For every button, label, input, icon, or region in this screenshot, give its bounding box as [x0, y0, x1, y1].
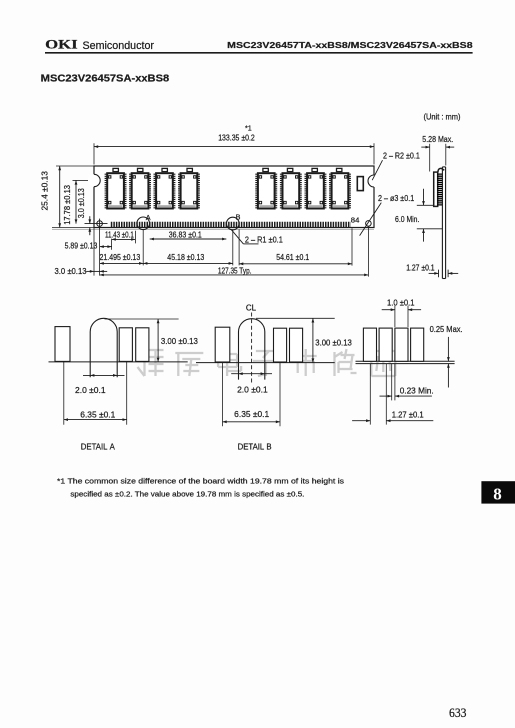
svg-text:36.83 ±0.1: 36.83 ±0.1: [169, 229, 202, 239]
chip capacitor: [138, 168, 143, 171]
detail B dim 6.35: [222, 363, 224, 427]
mounting hole left with crosshair: [97, 221, 103, 227]
svg-text:1.0 ±0.1: 1.0 ±0.1: [387, 297, 415, 307]
memory IC package: [281, 173, 300, 208]
memory IC package: [106, 173, 125, 208]
detail A right pins: [119, 328, 132, 362]
header rule: [45, 52, 473, 54]
svg-text:A: A: [146, 213, 151, 222]
detail B notch dome: [239, 319, 265, 380]
svg-text:2.0 ±0.1: 2.0 ±0.1: [237, 384, 268, 394]
chip capacitor: [287, 168, 292, 171]
detail C dim 1.27: [369, 364, 371, 425]
svg-text:2 – R1 ±0.1: 2 – R1 ±0.1: [245, 235, 283, 245]
memory IC package: [330, 173, 349, 208]
svg-text:133.35 ±0.2: 133.35 ±0.2: [218, 133, 255, 143]
svg-text:DETAIL B: DETAIL B: [238, 442, 272, 452]
svg-text:6.0 Min.: 6.0 Min.: [395, 214, 419, 224]
svg-text:45.18 ±0.13: 45.18 ±0.13: [167, 252, 204, 262]
board bottom shadow: [52, 228, 374, 230]
chapter tab 8: [481, 481, 515, 503]
side view component body: [434, 172, 438, 206]
chip capacitor: [263, 168, 268, 171]
detail C dim 0.23 Min: [391, 364, 393, 401]
detail B right pins: [274, 328, 287, 362]
side view top lead curl: [438, 168, 444, 172]
right key notch: [368, 175, 380, 187]
circle B marker: [227, 217, 240, 230]
svg-text:84: 84: [351, 215, 360, 224]
dim 6.0 Min: [417, 204, 434, 206]
svg-text:MSC23V26457SA-xxBS8: MSC23V26457SA-xxBS8: [41, 74, 170, 85]
svg-text:specified as ±0.2. The value a: specified as ±0.2. The value above 19.78…: [70, 490, 304, 499]
svg-text:3.0 ±0.13: 3.0 ±0.13: [76, 188, 86, 218]
chip capacitor: [312, 168, 317, 171]
detail B dim 2.0: [231, 373, 272, 375]
svg-text:1.27 ±0.1: 1.27 ±0.1: [392, 410, 424, 420]
detail C dim 1.0: [394, 306, 396, 327]
svg-text:11.43 ±0.1: 11.43 ±0.1: [105, 229, 134, 239]
svg-text:*1 The common size difference: *1 The common size difference of the boa…: [57, 477, 344, 486]
svg-text:2 – ø3 ±0.1: 2 – ø3 ±0.1: [378, 193, 415, 203]
svg-text:1.27 ±0.1: 1.27 ±0.1: [406, 262, 435, 272]
detail B baseline: [196, 362, 335, 364]
svg-text:6.35 ±0.1: 6.35 ±0.1: [80, 409, 115, 419]
dim 17.78 left: [73, 179, 89, 181]
svg-text:5.28 Max.: 5.28 Max.: [422, 134, 453, 144]
svg-text:17.78 ±0.13: 17.78 ±0.13: [62, 185, 72, 225]
vertical capacitor near right edge: [357, 177, 363, 191]
svg-text:OKI: OKI: [45, 38, 78, 52]
memory IC package: [130, 173, 149, 208]
chip capacitor: [162, 168, 167, 171]
side view pcb: [441, 167, 443, 279]
svg-text:6.35 ±0.1: 6.35 ±0.1: [234, 409, 269, 419]
svg-text:Semiconductor: Semiconductor: [83, 40, 155, 52]
memory IC package: [179, 173, 198, 208]
svg-text:127.35 Typ.: 127.35 Typ.: [218, 266, 252, 276]
svg-text:B: B: [236, 213, 241, 222]
svg-text:0.25 Max.: 0.25 Max.: [430, 324, 463, 334]
detail A dim 2.0: [83, 374, 125, 376]
svg-text:(Unit : mm): (Unit : mm): [424, 113, 461, 122]
memory IC package: [306, 173, 325, 208]
svg-text:633: 633: [449, 706, 467, 720]
watermark chinese characters: [138, 349, 396, 376]
svg-text:MSC23V26457TA-xxBS8/MSC23V2645: MSC23V26457TA-xxBS8/MSC23V26457SA-xxBS8: [227, 40, 473, 50]
detail C baseline double: [356, 360, 455, 362]
detail C pins: [363, 328, 376, 361]
svg-text:3.0 ±0.13: 3.0 ±0.13: [55, 266, 87, 276]
svg-text:21.495 ±0.13: 21.495 ±0.13: [100, 252, 141, 262]
svg-text:*1: *1: [245, 124, 252, 133]
dim 25.4 left: [56, 165, 94, 167]
edge connector pin row: [111, 222, 351, 227]
svg-text:54.61 ±0.1: 54.61 ±0.1: [276, 252, 309, 262]
svg-text:25.4 ±0.13: 25.4 ±0.13: [40, 171, 50, 211]
svg-text:CL: CL: [246, 304, 257, 313]
extension lines below board: [93, 228, 95, 276]
chip capacitor: [113, 168, 118, 171]
mounting hole right: [366, 221, 372, 227]
chip capacitor: [187, 168, 192, 171]
memory IC package: [257, 173, 276, 208]
svg-text:0.23 Min.: 0.23 Min.: [400, 386, 434, 396]
detail B dim 3.00: [256, 317, 335, 319]
svg-text:2 – R2 ±0.1: 2 – R2 ±0.1: [383, 151, 420, 161]
memory IC package: [155, 173, 174, 208]
side view component leads: [437, 174, 442, 206]
detail A left pin: [55, 327, 70, 362]
svg-text:DETAIL A: DETAIL A: [81, 442, 115, 452]
svg-text:5.89 ±0.13: 5.89 ±0.13: [65, 240, 98, 250]
svg-text:3.00 ±0.13: 3.00 ±0.13: [161, 336, 198, 346]
svg-text:2.0 ±0.1: 2.0 ±0.1: [75, 385, 106, 395]
detail A dim 3.00: [105, 318, 179, 320]
circle A marker: [137, 217, 150, 230]
detail B left pin: [215, 327, 230, 362]
detail A baseline: [49, 361, 188, 363]
svg-text:3.00 ±0.13: 3.00 ±0.13: [315, 338, 352, 348]
board outline: [94, 166, 374, 228]
detail B centerline dashed: [251, 313, 253, 383]
left key notch: [88, 174, 100, 186]
svg-text:8: 8: [493, 485, 502, 504]
dim 3.0 left vertical: [89, 216, 91, 223]
chip capacitor: [337, 168, 342, 171]
detail A notch dome: [90, 318, 117, 377]
detail A dim 6.35: [63, 362, 65, 425]
